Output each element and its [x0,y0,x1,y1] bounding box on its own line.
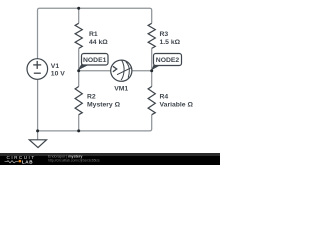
wire bottom horizontal [38,79,152,131]
resistor R1 [75,23,82,48]
ground [29,140,46,148]
wire voltmeter right [132,70,152,72]
resistor R4 [148,87,155,115]
logo orange square [19,160,21,162]
svg-text:LAB: LAB [22,159,33,164]
svg-text:44 kΩ: 44 kΩ [89,39,108,46]
junction dot node2 [150,69,153,72]
resistor R3 [148,23,155,48]
logo zigzag [5,161,19,163]
voltmeter VM1 [111,60,132,82]
svg-text:R1: R1 [89,31,98,38]
junction dot bottom mid [77,129,80,132]
wire middle branch R1 to node1 [78,48,80,86]
svg-text:R4: R4 [160,93,169,100]
svg-text:R2: R2 [87,93,96,100]
svg-text:10 V: 10 V [51,71,65,78]
wire voltmeter left [79,70,111,72]
svg-text:http://circuitlab.com/c/jrbsn3: http://circuitlab.com/c/jrbsn3c65lzs [48,158,100,162]
svg-text:NODE1: NODE1 [83,57,107,64]
wire ground stub [37,131,39,140]
svg-text:NODE2: NODE2 [156,57,180,64]
svg-text:V1: V1 [51,63,60,70]
wire top horizontal [38,8,152,58]
wire middle branch top lead [78,8,80,23]
resistor R2 [75,87,82,115]
voltage source V1 [27,59,48,80]
wire R2 bottom lead [78,115,80,131]
wire right branch R3 to node2 [151,48,153,86]
svg-text:Variable Ω: Variable Ω [160,102,194,109]
node NODE2 flag [151,54,181,71]
junction dot top [77,7,80,10]
footer bar [0,153,220,165]
node NODE1 flag [78,54,108,71]
junction dot bottom left [36,129,39,132]
junction dot node1 [77,69,80,72]
svg-text:Mystery Ω: Mystery Ω [87,102,121,109]
svg-text:1.5 kΩ: 1.5 kΩ [160,39,181,46]
svg-text:VM1: VM1 [114,85,128,92]
svg-text:R3: R3 [160,31,169,38]
